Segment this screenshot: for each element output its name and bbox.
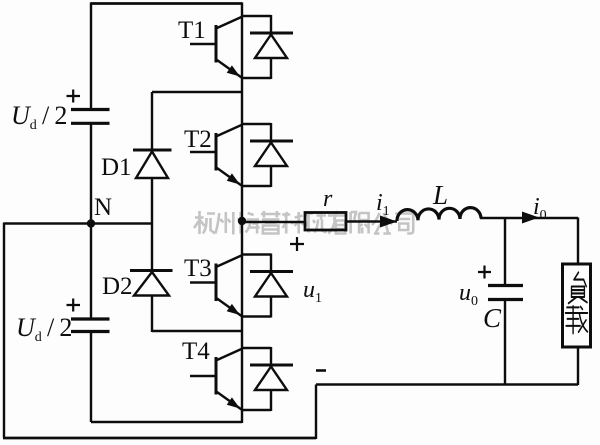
C branch vertical top [504,218,506,285]
watermark char 公 [372,213,393,234]
wire T3T4 mid to D2 [152,330,242,332]
plus lower cap [67,299,81,312]
bridge vertical [241,2,243,423]
svg-text:r: r [323,186,333,212]
plus C [478,266,491,279]
svg-text:D2: D2 [102,273,133,300]
watermark char 技 [305,212,327,233]
watermark char 睿 [261,211,281,234]
load text 负 [568,272,587,303]
plus upper cap [67,90,81,103]
resistor box r [305,213,346,231]
diode D2 [130,271,173,296]
minus u1 [316,369,326,372]
diode D1 [133,150,172,178]
output wire right [480,217,578,219]
watermark char 科 [282,212,304,234]
watermark char 司 [395,214,413,234]
left bus lower [90,333,92,422]
watermark char 将 [238,212,260,234]
watermark 杭州将睿科技有限公司 [194,211,413,235]
transistor T3 with freewheel diode [190,254,293,318]
bottom rail [91,421,242,423]
arrow i0 [522,212,539,224]
svg-text:N: N [94,194,112,221]
output wire mid [347,220,397,222]
svg-text:D1: D1 [101,154,132,181]
C branch vertical bottom [504,301,506,385]
svg-text:L: L [432,180,448,210]
bridge output node dot [238,217,246,225]
wire N line [4,222,152,224]
N return bottom [3,437,316,440]
watermark char 有 [328,211,348,234]
return step vertical [315,385,317,440]
far left N return [3,223,5,439]
svg-text:T2: T2 [184,126,212,153]
transistor T2 with freewheel diode [190,123,293,187]
load branch vertical top [577,218,579,264]
capacitor lower Ud/2 [71,319,110,332]
clamp branch segments [151,92,153,150]
output wire left [242,221,304,223]
transistor T1 with freewheel diode [190,15,293,79]
inductor L [397,208,481,221]
load branch vertical bottom [577,348,579,385]
top rail [91,2,242,5]
svg-text:Ud / 2: Ud / 2 [11,101,67,133]
plus u1 [290,237,304,251]
svg-text:T3: T3 [184,255,212,282]
wire T1T2 mid to D1 [152,91,242,93]
arrow i1 [380,216,397,228]
svg-text:T1: T1 [178,17,206,44]
load text 载 [566,306,588,333]
load box [563,264,591,347]
svg-text:C: C [483,303,502,333]
return mid horizontal [316,383,578,385]
svg-text:i1: i1 [376,190,390,219]
capacitor upper Ud/2 [71,110,110,124]
svg-text:u0: u0 [459,280,478,309]
svg-text:i0: i0 [533,194,547,223]
watermark char 限 [351,212,369,234]
capacitor C [488,286,523,300]
svg-text:Ud / 2: Ud / 2 [16,313,72,345]
node N dot [87,219,95,227]
transistor T4 with freewheel diode [190,347,293,411]
svg-text:u1: u1 [303,277,322,306]
watermark char 州 [215,212,233,235]
svg-text:T4: T4 [182,338,210,365]
left bus upper [90,2,92,108]
watermark char 杭 [194,211,215,234]
left bus middle [90,125,92,318]
